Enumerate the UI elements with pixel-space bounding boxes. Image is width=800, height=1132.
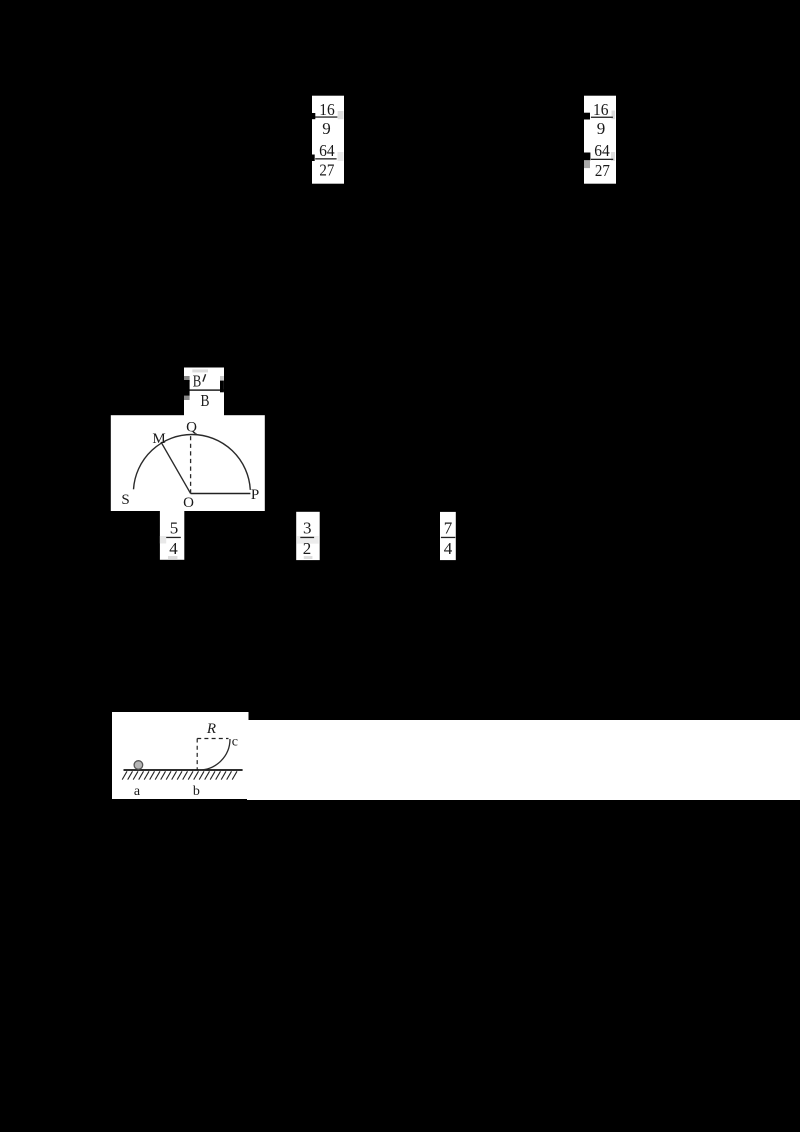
svg-text:9: 9	[322, 119, 331, 138]
fraction bar 5/4	[166, 537, 181, 538]
svg-text:3: 3	[303, 519, 312, 538]
black notch 1a	[312, 113, 315, 119]
white panel: fraction stack 2 (16/9 over 64/27)	[584, 96, 616, 184]
fraction bar 3/2	[300, 537, 314, 538]
svg-text:5: 5	[170, 519, 179, 538]
svg-text:9: 9	[597, 119, 606, 138]
fraction bar B'/B	[186, 389, 224, 390]
left black mark	[184, 380, 190, 396]
svg-text:4: 4	[169, 539, 178, 558]
gray patch right of bar 2a	[612, 111, 616, 120]
gray band at bar	[297, 536, 319, 544]
gray patch right of bar 1b	[338, 152, 344, 161]
ground hatching	[122, 771, 237, 779]
white panel: semicircle diagram	[111, 415, 265, 511]
svg-text:2: 2	[303, 539, 312, 558]
fraction bar 16/9	[591, 117, 613, 118]
quarter-circle ramp arc c to b	[199, 739, 230, 770]
semicircle arc S to P	[134, 435, 251, 490]
svg-text:27: 27	[319, 160, 334, 179]
gray patch right of bar 2b	[611, 152, 615, 161]
left gray mark upper	[184, 376, 190, 382]
dashed horizontal line R	[197, 738, 228, 740]
svg-text:P: P	[251, 487, 259, 503]
svg-text:16: 16	[593, 100, 609, 119]
gray patch right of bar 1a	[338, 111, 344, 119]
chord line O-M	[161, 442, 191, 494]
ground line	[124, 769, 243, 771]
svg-text:16: 16	[319, 100, 335, 119]
fraction bar 64/27	[315, 158, 336, 159]
svg-text:O: O	[183, 495, 194, 511]
white panel: fraction 3/2	[296, 512, 320, 560]
dashed line O-Q	[190, 434, 192, 494]
gray patch left of bar	[160, 536, 166, 544]
svg-text:S: S	[121, 492, 129, 508]
svg-text:Q: Q	[186, 420, 197, 436]
black notch 2b	[584, 153, 590, 161]
black notch 1b	[312, 155, 315, 162]
svg-text:64: 64	[319, 141, 335, 160]
white panel: physics diagram	[112, 712, 249, 799]
fraction bar 16/9	[315, 116, 338, 117]
white panel: fraction 5/4	[160, 509, 184, 560]
svg-text:c: c	[232, 735, 238, 750]
right black mark	[220, 381, 224, 393]
right gray mark	[220, 376, 224, 381]
svg-text:B: B	[201, 391, 210, 410]
fraction bar 64/27	[591, 159, 613, 160]
svg-text:4: 4	[444, 539, 453, 558]
gray notch 2c	[584, 160, 590, 168]
black notch 2a	[584, 113, 590, 120]
gray patch bottom	[304, 556, 313, 559]
dashed vertical line at b	[196, 739, 198, 770]
ball at a	[134, 761, 143, 770]
svg-text:27: 27	[595, 161, 610, 180]
gray patch bottom	[168, 556, 177, 559]
svg-text:b: b	[193, 784, 200, 799]
white panel: fraction stack 1 (16/9 over 64/27)	[312, 96, 344, 184]
svg-text:B: B	[193, 372, 202, 391]
radius line O-P	[191, 493, 251, 495]
white panel: fraction B'/B	[184, 368, 224, 417]
svg-text:R: R	[206, 721, 216, 737]
fraction bar 7/4	[441, 537, 455, 538]
svg-text:a: a	[134, 784, 141, 799]
left gray mark lower	[184, 396, 190, 400]
svg-text:64: 64	[594, 141, 610, 160]
svg-text:M: M	[152, 431, 165, 447]
gray highlight band top	[192, 369, 208, 372]
svg-text:7: 7	[444, 519, 453, 538]
white band paragraph highlight	[247, 720, 800, 800]
prime mark	[203, 374, 206, 381]
white panel: fraction 7/4	[440, 512, 456, 560]
